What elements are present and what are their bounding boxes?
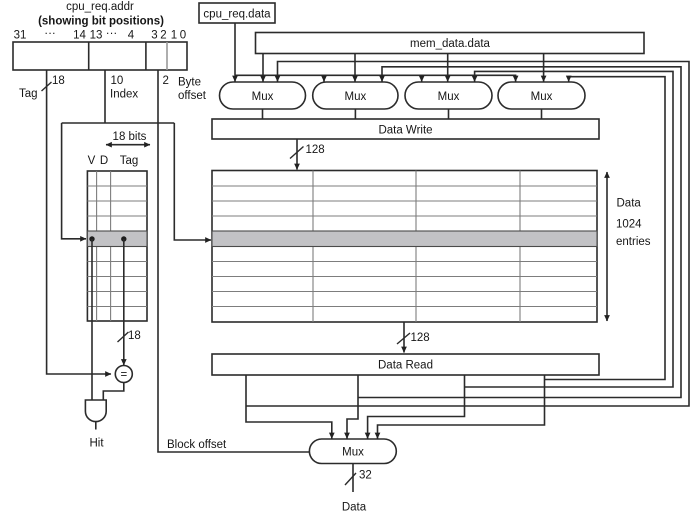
node tag tap (121, 236, 126, 241)
slash 128 bottom (397, 333, 410, 344)
tag array selected row highlight (87, 231, 147, 247)
mux M5 output word select (309, 439, 396, 464)
Data Read box (212, 354, 599, 375)
svg-text:0: 0 (180, 30, 186, 42)
wire Tag field down to comparator (47, 70, 111, 374)
svg-text:18 bits: 18 bits (113, 131, 147, 143)
svg-text:···: ··· (44, 28, 56, 40)
svg-text:Mux: Mux (345, 91, 367, 103)
svg-text:Data Read: Data Read (378, 360, 433, 372)
svg-text:Data: Data (342, 502, 367, 514)
wire word3 feedback to mux4 (545, 77, 666, 380)
wire cpu data arrow mux3 (421, 75, 423, 81)
svg-text:(showing bit positions): (showing bit positions) (38, 16, 164, 28)
svg-text:32: 32 (359, 470, 372, 482)
wire block offset down (158, 70, 309, 452)
Data Write box (212, 119, 599, 139)
wire data write to array 128 (296, 139, 298, 170)
wire word2 tap to bottom mux (368, 375, 465, 439)
wire mux2 to data write (354, 109, 356, 119)
svg-text:1: 1 (171, 30, 177, 42)
svg-text:mem_data.data: mem_data.data (410, 38, 491, 50)
slash 128 top (290, 147, 304, 159)
wire mem data to mux4 (543, 54, 545, 82)
tag array table (87, 171, 147, 321)
svg-text:Byte: Byte (178, 77, 201, 89)
register field divider index/blockoffset (145, 42, 147, 70)
svg-text:Data: Data (617, 198, 642, 210)
svg-text:Hit: Hit (89, 438, 104, 450)
svg-text:13: 13 (90, 30, 103, 42)
svg-text:entries: entries (616, 236, 651, 248)
wire mem data to mux2 (354, 54, 356, 82)
wire mux3 to data write (448, 109, 450, 119)
wire Index field down (104, 70, 106, 123)
svg-text:Mux: Mux (252, 91, 274, 103)
node valid bit tap (89, 236, 94, 241)
svg-text:Block offset: Block offset (167, 439, 227, 451)
wire index to data array row (174, 123, 211, 240)
wire word2 feedback to mux3 (465, 71, 674, 387)
svg-text:Index: Index (110, 89, 138, 101)
svg-text:31: 31 (14, 30, 27, 42)
wire array to data read 128 (403, 322, 405, 353)
dimension arrow 18 bits (106, 144, 150, 146)
svg-text:1024: 1024 (616, 219, 642, 231)
svg-text:Mux: Mux (438, 91, 460, 103)
wire comparator output to AND gate (103, 383, 124, 401)
svg-text:Data Write: Data Write (378, 125, 432, 137)
wire valid bit to AND gate (91, 239, 93, 400)
wire AND output (95, 422, 97, 430)
mux M1 (220, 82, 306, 109)
dimension arrow data entries (606, 172, 608, 321)
svg-text:Mux: Mux (342, 447, 364, 459)
svg-text:D: D (100, 155, 108, 167)
svg-text:4: 4 (128, 30, 135, 42)
wire cpu data arrow mux2 (323, 75, 325, 81)
wire tag to comparator (123, 239, 125, 365)
svg-text:Mux: Mux (531, 91, 553, 103)
comparator U1 = (115, 366, 132, 383)
register field divider tag/index (88, 42, 90, 70)
wire mem data to mux3 (447, 54, 449, 82)
mux M3 (405, 82, 492, 109)
wire mem data to mux1 (262, 54, 264, 82)
AND gate (85, 400, 106, 422)
register field divider block/byte offset (166, 42, 168, 70)
svg-text:Tag: Tag (120, 155, 139, 167)
data array selected row highlight (212, 231, 597, 247)
svg-text:14: 14 (73, 30, 86, 42)
svg-text:···: ··· (106, 28, 118, 40)
svg-text:2: 2 (160, 30, 166, 42)
bit position numbers (14, 28, 187, 42)
wire index to tag array row (62, 123, 86, 239)
mem_data.data box (256, 33, 645, 54)
mux M4 (498, 82, 585, 109)
mux M2 (313, 82, 398, 109)
wire word1 tap to bottom mux (347, 375, 358, 439)
data array table (212, 171, 597, 323)
svg-text:V: V (88, 155, 96, 167)
svg-text:cpu_req.data: cpu_req.data (203, 9, 271, 21)
wire index horizontal split (62, 122, 175, 124)
label Byte offset (178, 77, 207, 103)
cpu_req.data box (199, 3, 275, 23)
svg-text:cpu_req.addr: cpu_req.addr (66, 1, 134, 13)
register cpu_req.addr box (13, 42, 187, 70)
slash 18 on tag wire (42, 82, 52, 91)
svg-text:2: 2 (163, 75, 169, 87)
svg-text:=: = (120, 369, 127, 381)
wire mux1 to data write (262, 109, 264, 119)
wire mux4 to data write (541, 109, 543, 119)
slash 32 (345, 473, 356, 485)
wire cpu data arrow mux1 (234, 75, 236, 81)
wire word0 tap to bottom mux (246, 375, 332, 439)
svg-text:128: 128 (411, 332, 430, 344)
wire cpu_req.data down (234, 23, 236, 75)
svg-text:128: 128 (306, 144, 325, 156)
wire word0 feedback to mux1 (246, 62, 689, 407)
wire word1 feedback to mux2 (358, 67, 681, 398)
svg-text:10: 10 (111, 75, 124, 87)
svg-text:Tag: Tag (19, 88, 38, 100)
wire mux5 output (352, 464, 354, 493)
svg-text:offset: offset (178, 90, 207, 102)
wire cpu_req.data horizontal to muxes (235, 75, 516, 81)
slash 18 on tag compare wire (118, 332, 129, 342)
svg-text:18: 18 (52, 75, 65, 87)
svg-text:3: 3 (151, 30, 157, 42)
wire word3 tap to bottom mux (378, 375, 545, 439)
svg-text:18: 18 (128, 330, 141, 342)
label Data 1024 entries (616, 198, 651, 249)
